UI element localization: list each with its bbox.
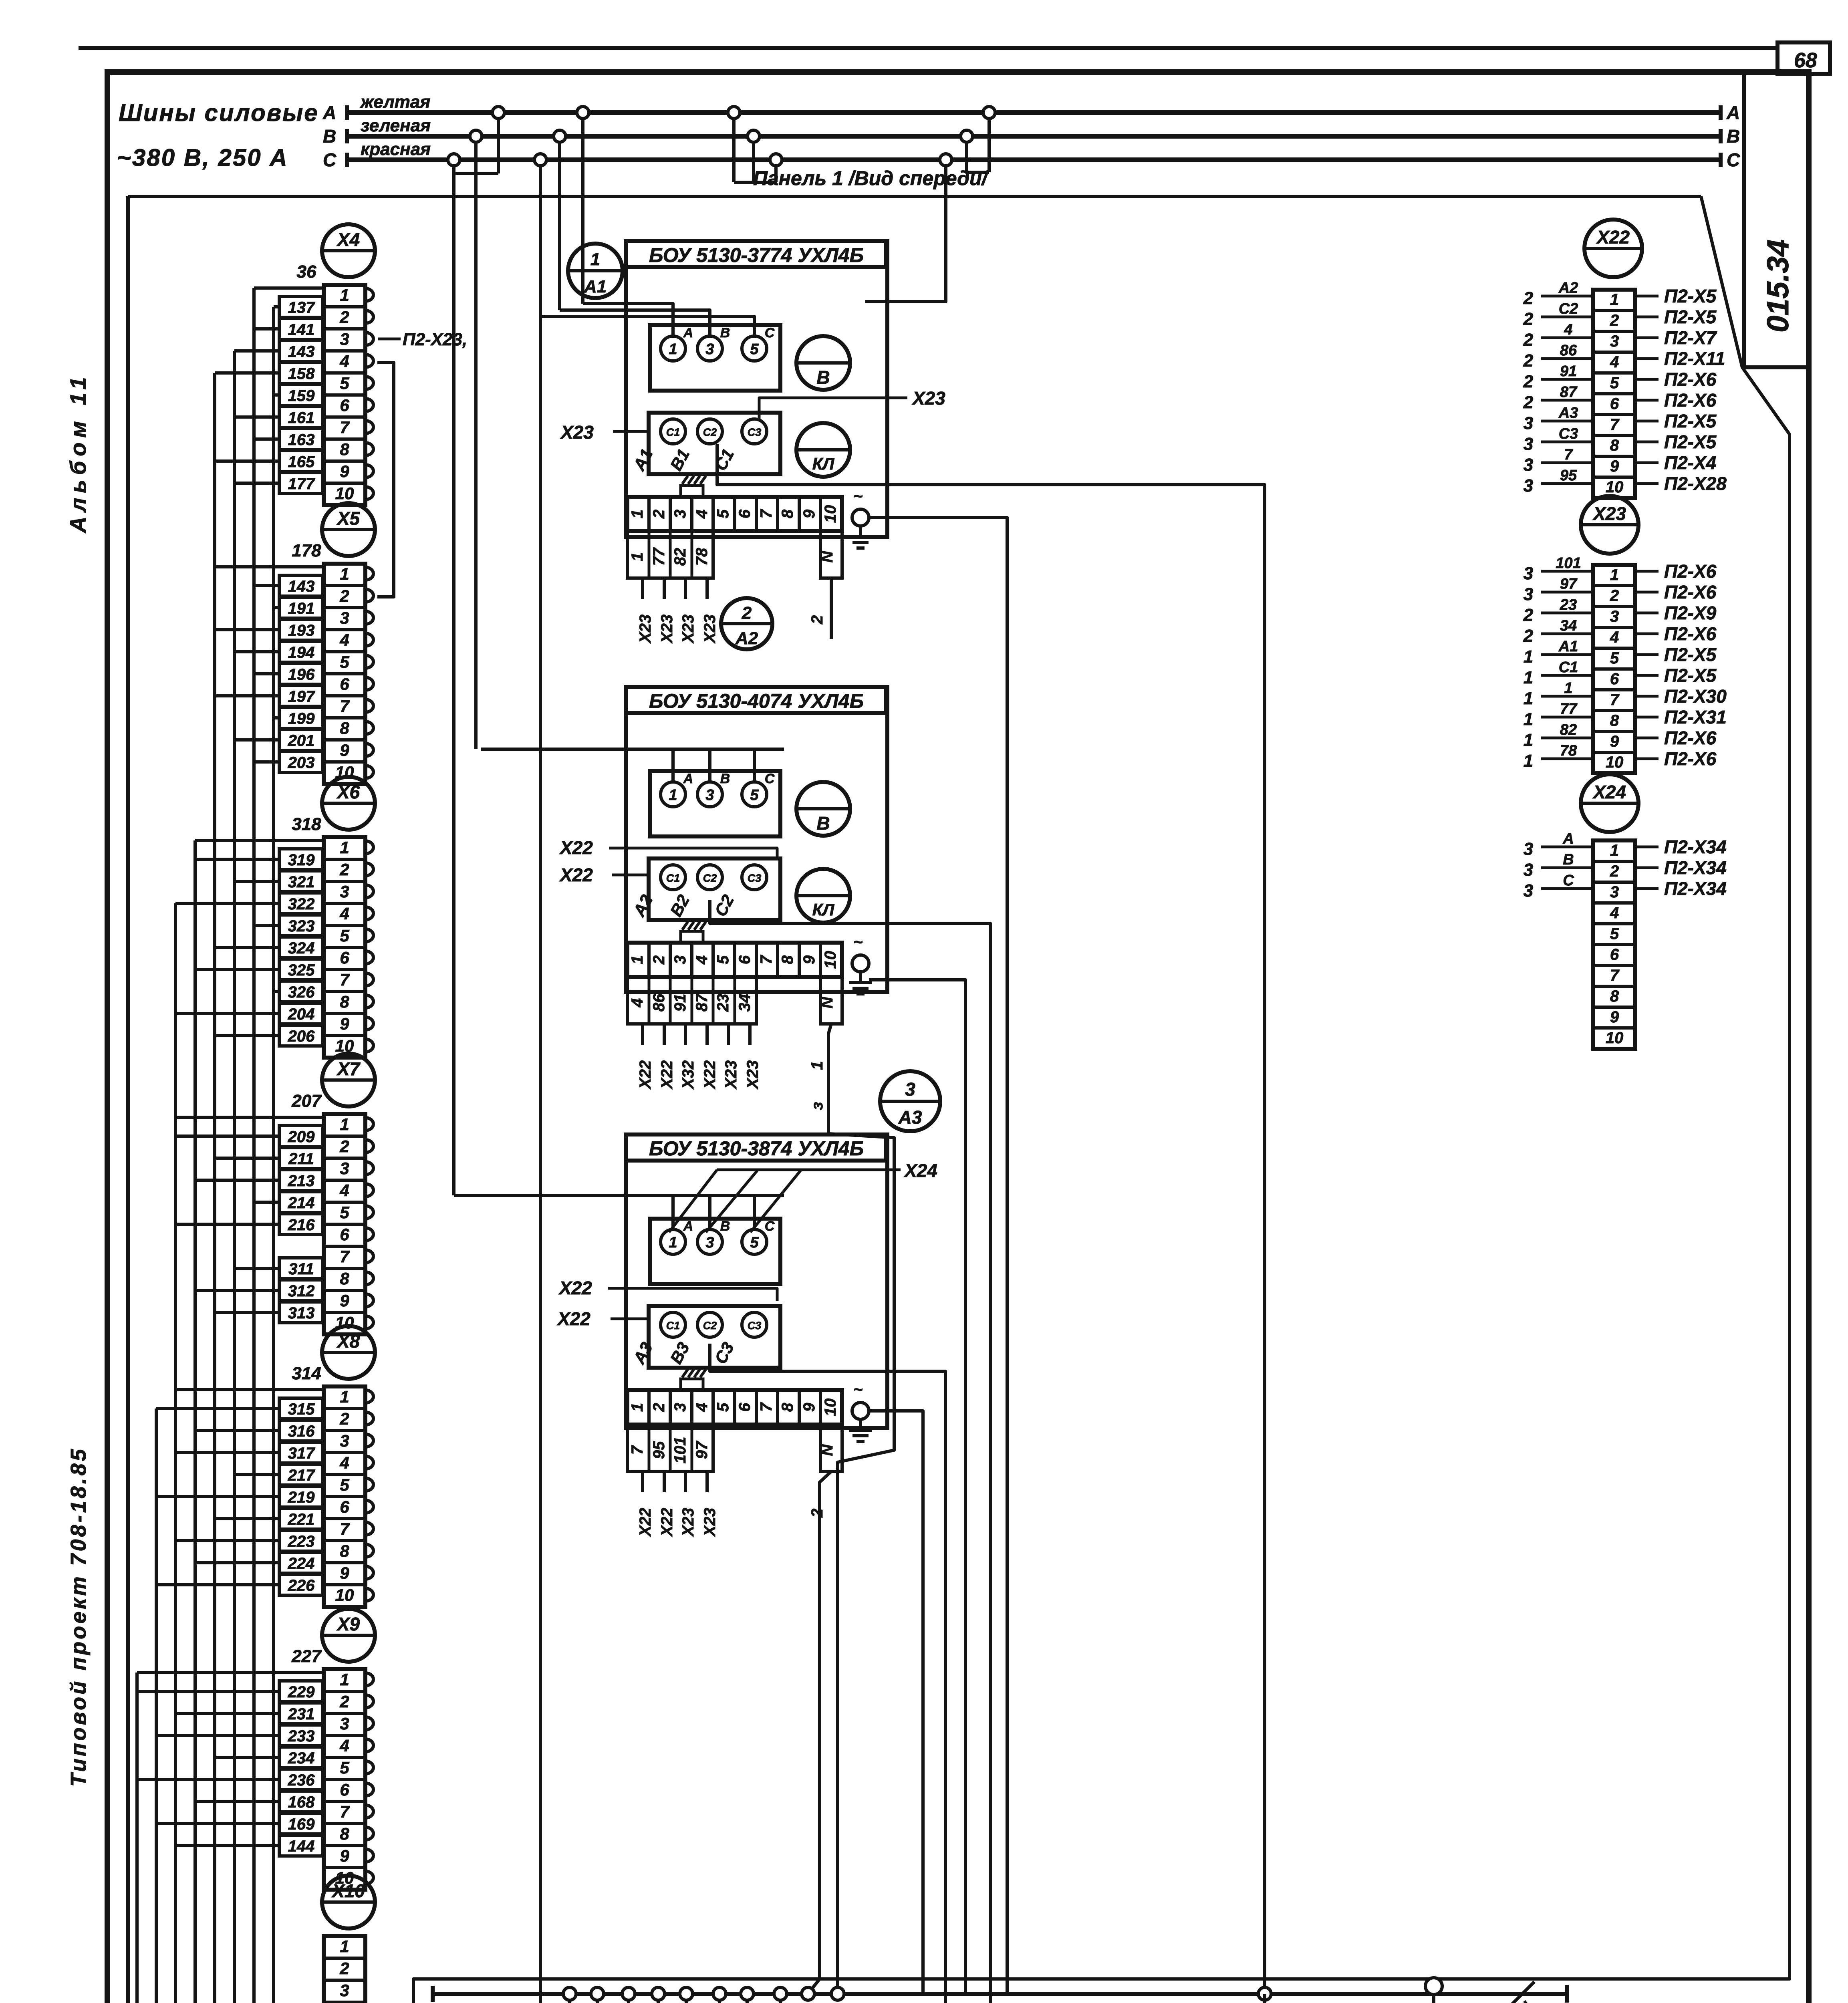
connector X23 xyxy=(1581,496,1638,554)
wire bundle vertical 8 xyxy=(274,307,485,2003)
svg-text:7: 7 xyxy=(758,509,775,518)
wire: null bus drop to cable circle at x=823 xyxy=(330,1994,686,2003)
svg-text:Шины силовые: Шины силовые xyxy=(119,99,319,126)
wire С3 at X22 pin 8 xyxy=(1541,441,1593,443)
svg-text:3: 3 xyxy=(1524,434,1533,454)
pin 3 phase В xyxy=(697,1229,722,1254)
svg-text:С2: С2 xyxy=(1559,300,1578,317)
svg-text:6: 6 xyxy=(340,396,349,415)
svg-text:3: 3 xyxy=(1524,839,1533,859)
wire 23 at X23 pin 3 xyxy=(1541,612,1593,615)
terminal strip of A2 xyxy=(627,943,842,977)
svg-text:3: 3 xyxy=(705,1234,714,1251)
connector X7 xyxy=(322,1054,375,1106)
wire 316 to X8 xyxy=(279,1420,323,1441)
wire 193 to X5 xyxy=(279,619,323,640)
svg-text:77: 77 xyxy=(650,547,668,566)
svg-text:5: 5 xyxy=(340,926,349,945)
wire to П2-Х6 xyxy=(1635,633,1659,635)
svg-text:10: 10 xyxy=(1606,754,1624,771)
pin С2 xyxy=(697,419,722,444)
wire tag boxes under strip of A2 xyxy=(627,977,756,1024)
svg-text:86: 86 xyxy=(650,993,668,1012)
svg-text:77: 77 xyxy=(1560,701,1578,717)
pin 3 phase В xyxy=(697,336,722,361)
callout: Шина нулевая черная xyxy=(1524,2001,1781,2003)
unit title box xyxy=(626,241,886,267)
svg-text:9: 9 xyxy=(340,741,349,760)
svg-text:217: 217 xyxy=(288,1467,315,1484)
svg-text:1: 1 xyxy=(590,250,600,269)
wire 191 to X5 xyxy=(279,597,323,618)
svg-text:В: В xyxy=(816,813,830,834)
svg-text:2: 2 xyxy=(808,1509,826,1518)
svg-text:5: 5 xyxy=(714,1403,732,1412)
svg-text:169: 169 xyxy=(288,1816,315,1833)
pin С3 xyxy=(742,865,767,890)
svg-text:Х6: Х6 xyxy=(336,782,360,802)
svg-text:Х24: Х24 xyxy=(1592,782,1626,802)
wire 137 to X4 xyxy=(279,296,323,317)
svg-text:1: 1 xyxy=(340,1115,349,1134)
svg-text:~: ~ xyxy=(853,488,863,505)
wire bundle vertical 1 xyxy=(135,1673,139,2003)
svg-text:5: 5 xyxy=(750,787,759,804)
wire bundle vertical 7 xyxy=(254,288,435,2003)
wire 144 to X9 xyxy=(279,1835,323,1856)
terminal box 1-3-5 of A2 xyxy=(650,771,780,836)
svg-text:7: 7 xyxy=(629,1445,646,1455)
svg-text:4: 4 xyxy=(1610,353,1619,371)
wire to П2-Х34 xyxy=(1635,866,1659,869)
svg-text:С: С xyxy=(1563,872,1574,889)
svg-text:6: 6 xyxy=(340,948,349,967)
svg-text:311: 311 xyxy=(288,1260,314,1278)
connector X8 xyxy=(322,1326,375,1379)
svg-text:234: 234 xyxy=(288,1749,315,1767)
pin С2 xyxy=(697,1312,722,1337)
svg-text:Х8: Х8 xyxy=(336,1331,360,1352)
wire: A3 terminal N drop xyxy=(808,1471,831,1994)
svg-text:Х23: Х23 xyxy=(722,1060,740,1090)
wire bundle vertical 2 xyxy=(156,1409,180,2003)
svg-text:А1: А1 xyxy=(1558,638,1578,655)
svg-text:2: 2 xyxy=(1523,288,1534,308)
svg-text:36: 36 xyxy=(297,262,316,282)
wire 101 at X23 pin 1 xyxy=(1541,570,1593,573)
svg-text:6: 6 xyxy=(340,1225,349,1244)
svg-text:223: 223 xyxy=(288,1533,315,1550)
svg-text:144: 144 xyxy=(288,1838,315,1855)
svg-text:С: С xyxy=(765,325,775,341)
svg-text:Х23: Х23 xyxy=(1592,503,1626,524)
wires: phase feed bracket into A2 xyxy=(481,748,784,751)
svg-text:С3: С3 xyxy=(748,1320,762,1332)
wire to П2-Х7 xyxy=(1635,337,1659,339)
svg-text:з: з xyxy=(808,1102,826,1110)
svg-text:А2: А2 xyxy=(735,629,758,648)
svg-text:312: 312 xyxy=(288,1282,315,1300)
wire 311 to X7 xyxy=(279,1258,323,1279)
pin С2 xyxy=(697,865,722,890)
svg-text:7: 7 xyxy=(340,697,350,715)
svg-text:199: 199 xyxy=(288,710,315,727)
svg-text:159: 159 xyxy=(288,387,315,405)
terminal box C1-C2-C3 of A1 xyxy=(649,413,780,474)
svg-text:197: 197 xyxy=(288,688,315,705)
contactor КЛ of A1 xyxy=(796,423,850,477)
wire to П2-Х6 xyxy=(1635,570,1659,573)
wire 231 to X9 xyxy=(279,1703,323,1724)
ground terminal of A1 xyxy=(852,509,869,526)
svg-text:2: 2 xyxy=(1610,587,1619,605)
ground terminal of A2 xyxy=(852,955,869,972)
svg-text:318: 318 xyxy=(292,814,321,834)
wire 163 to X4 xyxy=(279,429,323,449)
wire: null bus drop to cable circle at x=1210 xyxy=(485,1994,597,2003)
svg-text:2: 2 xyxy=(339,1137,349,1156)
wire 177 to X4 xyxy=(279,473,323,494)
svg-text:95: 95 xyxy=(650,1441,668,1459)
svg-text:красная: красная xyxy=(361,139,431,159)
svg-text:86: 86 xyxy=(1560,342,1577,359)
wire В at X24 pin 2 xyxy=(1541,866,1593,869)
svg-text:3: 3 xyxy=(340,882,349,901)
wire 234 to X9 xyxy=(279,1747,323,1768)
svg-text:8: 8 xyxy=(340,1542,349,1560)
designator circle 3/А3 xyxy=(880,1071,940,1131)
wire 216 to X7 xyxy=(279,1214,323,1235)
wire 199 to X5 xyxy=(279,707,323,728)
wire 224 to X8 xyxy=(279,1552,323,1573)
pin С3 xyxy=(742,419,767,444)
svg-text:А2: А2 xyxy=(1558,280,1578,296)
wire 223 to X8 xyxy=(279,1530,323,1551)
pin 1 phase А xyxy=(661,336,685,361)
wire tag boxes under strip of A1 xyxy=(627,531,713,578)
connector X4 xyxy=(322,224,375,277)
svg-text:1: 1 xyxy=(669,787,677,804)
wire 326 to X6 xyxy=(279,981,323,1002)
svg-text:2: 2 xyxy=(1523,372,1534,391)
wire 219 to X8 xyxy=(279,1486,323,1507)
svg-text:23: 23 xyxy=(1560,596,1577,613)
svg-text:4: 4 xyxy=(629,998,646,1008)
wire: null bus drop to cable circle at x=962 xyxy=(385,1994,658,2003)
svg-text:Х22: Х22 xyxy=(701,1060,719,1090)
pin 5 phase С xyxy=(742,782,767,807)
wire 206 to X6 xyxy=(279,1025,323,1046)
svg-text:П2-Х6: П2-Х6 xyxy=(1664,390,1717,411)
svg-text:3: 3 xyxy=(705,787,714,804)
svg-text:3: 3 xyxy=(1610,332,1619,350)
wire 319 to X6 xyxy=(279,849,323,870)
wire 229 to X9 xyxy=(279,1681,323,1702)
svg-text:5: 5 xyxy=(340,1475,349,1494)
svg-text:2: 2 xyxy=(1523,309,1534,329)
svg-text:7: 7 xyxy=(758,955,775,964)
svg-text:4: 4 xyxy=(693,510,711,519)
svg-text:229: 229 xyxy=(288,1683,315,1701)
svg-text:5: 5 xyxy=(340,653,349,671)
svg-text:3: 3 xyxy=(340,1159,349,1178)
wire: null bus to cable 1 xyxy=(542,1994,570,2003)
svg-text:5: 5 xyxy=(1610,649,1619,667)
wire 233 to X9 xyxy=(279,1725,323,1746)
svg-text:101: 101 xyxy=(671,1437,689,1464)
svg-text:34: 34 xyxy=(1560,617,1577,634)
wire X4 pins 4..5 to X5 pins 1..2 xyxy=(377,363,394,597)
svg-text:Х22: Х22 xyxy=(658,1508,676,1537)
wire А2 at X22 pin 1 xyxy=(1541,295,1593,298)
wire 324 to X6 xyxy=(279,937,323,958)
wire bundle vertical 3 xyxy=(175,903,230,2003)
wire 236 to X9 xyxy=(279,1769,323,1790)
svg-text:4: 4 xyxy=(1610,904,1619,922)
svg-text:П2-Х34: П2-Х34 xyxy=(1664,878,1727,899)
svg-text:78: 78 xyxy=(693,548,711,566)
svg-text:5: 5 xyxy=(1610,374,1619,392)
wire to П2-Х31 xyxy=(1635,716,1659,719)
svg-text:1: 1 xyxy=(340,838,349,857)
svg-text:78: 78 xyxy=(1560,742,1577,759)
svg-text:1: 1 xyxy=(1524,730,1533,750)
wire 317 to X8 xyxy=(279,1442,323,1463)
wire to П2-Х4 xyxy=(1635,461,1659,464)
wire to П2-Х6 xyxy=(1635,591,1659,594)
wire to П2-Х11 xyxy=(1635,357,1659,360)
svg-text:2: 2 xyxy=(650,1403,668,1412)
doc number margin box 015.34 xyxy=(1744,72,1809,367)
svg-text:С3: С3 xyxy=(748,872,762,884)
svg-text:1: 1 xyxy=(629,510,646,518)
terminal N of A2 xyxy=(820,977,842,1024)
svg-text:Х23: Х23 xyxy=(658,615,676,644)
svg-text:В: В xyxy=(720,325,730,341)
bus tap junction cluster 3 xyxy=(732,113,736,182)
svg-text:П2-Х7: П2-Х7 xyxy=(1664,327,1717,348)
wire: A3 ground to null bus xyxy=(869,1411,923,1994)
wire 86 at X22 pin 4 xyxy=(1541,357,1593,360)
svg-text:321: 321 xyxy=(288,873,315,891)
wire 217 to X8 xyxy=(279,1464,323,1485)
svg-text:3: 3 xyxy=(1524,564,1533,583)
svg-text:П2-Х6: П2-Х6 xyxy=(1664,582,1717,603)
terminal box C1-C2-C3 of A3 xyxy=(649,1306,780,1368)
wire: phase B drop to block A2 xyxy=(474,136,478,749)
svg-text:206: 206 xyxy=(288,1028,315,1045)
svg-text:П2-Х5: П2-Х5 xyxy=(1664,431,1717,452)
wire to П2-Х5 xyxy=(1635,441,1659,443)
svg-text:317: 317 xyxy=(288,1445,315,1462)
svg-text:4: 4 xyxy=(693,1403,711,1412)
svg-text:4: 4 xyxy=(339,352,349,371)
svg-text:194: 194 xyxy=(288,644,315,661)
wire 97 at X23 pin 2 xyxy=(1541,591,1593,594)
svg-text:9: 9 xyxy=(340,1846,349,1865)
wire: null bus drop to cable circle at x=697 xyxy=(279,1994,719,2003)
svg-text:Х23: Х23 xyxy=(679,615,697,644)
svg-text:3: 3 xyxy=(671,1403,689,1412)
svg-text:204: 204 xyxy=(288,1006,315,1023)
wire 314 to X8 pin 1 xyxy=(175,1388,324,1391)
svg-text:С1: С1 xyxy=(1559,659,1578,676)
wire А3 at X22 pin 7 xyxy=(1541,420,1593,423)
svg-text:3: 3 xyxy=(340,1981,349,2000)
wire to П2-Х5 xyxy=(1635,420,1659,423)
svg-text:326: 326 xyxy=(288,983,315,1001)
svg-text:Х22: Х22 xyxy=(559,864,593,885)
svg-text:6: 6 xyxy=(736,955,754,964)
bus B (green) xyxy=(349,134,1721,139)
svg-text:97: 97 xyxy=(1560,576,1578,592)
svg-text:Х23: Х23 xyxy=(701,615,719,644)
svg-text:3: 3 xyxy=(1524,413,1533,433)
svg-text:3: 3 xyxy=(1524,860,1533,880)
meter B of A1 xyxy=(796,336,850,390)
svg-text:БОУ 5130-4074 УХЛ4Б: БОУ 5130-4074 УХЛ4Б xyxy=(649,690,864,712)
connector X24 xyxy=(1581,774,1638,832)
svg-text:3: 3 xyxy=(905,1079,915,1100)
svg-text:3: 3 xyxy=(1524,455,1533,475)
svg-text:С: С xyxy=(323,149,337,170)
svg-text:Х22: Х22 xyxy=(637,1060,654,1090)
svg-text:9: 9 xyxy=(340,462,349,481)
pin С1 xyxy=(661,419,685,444)
svg-text:1: 1 xyxy=(1564,680,1572,697)
svg-text:10: 10 xyxy=(335,484,354,503)
inner left border line xyxy=(126,196,130,2003)
svg-text:10: 10 xyxy=(335,1586,354,1604)
svg-text:95: 95 xyxy=(1560,467,1577,484)
svg-text:8: 8 xyxy=(340,1269,349,1288)
svg-text:6: 6 xyxy=(340,1780,349,1799)
svg-text:8: 8 xyxy=(1610,437,1619,454)
wire 315 to X8 xyxy=(279,1398,323,1419)
wire 178 to X5 pin 1 xyxy=(215,565,324,568)
connector X22 xyxy=(1584,220,1642,277)
wire 34 at X23 pin 4 xyxy=(1541,633,1593,635)
svg-text:Х23: Х23 xyxy=(701,1508,719,1537)
wire bundle vertical 4 xyxy=(195,840,279,2003)
svg-text:7: 7 xyxy=(1610,967,1620,984)
svg-text:101: 101 xyxy=(1556,555,1581,572)
wire: A3 C2 to cable 25 xyxy=(703,1344,945,2003)
wire 207 to X7 pin 1 xyxy=(175,1116,324,1119)
svg-text:7: 7 xyxy=(340,1247,350,1266)
terminal N of A1 xyxy=(820,531,842,578)
svg-text:2: 2 xyxy=(1610,312,1619,329)
svg-text:Х22: Х22 xyxy=(1596,227,1630,248)
svg-text:6: 6 xyxy=(340,675,349,693)
svg-text:97: 97 xyxy=(693,1441,711,1459)
svg-text:Х7: Х7 xyxy=(336,1058,361,1079)
svg-text:БОУ 5130-3774 УХЛ4Б: БОУ 5130-3774 УХЛ4Б xyxy=(649,244,864,266)
wire А1 at X23 pin 5 xyxy=(1541,653,1593,656)
svg-text:9: 9 xyxy=(800,1403,818,1412)
wire А at X24 pin 1 xyxy=(1541,846,1593,848)
svg-text:2: 2 xyxy=(339,586,349,605)
wire 161 to X4 xyxy=(279,407,323,427)
svg-text:158: 158 xyxy=(288,365,315,383)
pin 1 phase А xyxy=(661,782,685,807)
wire to П2-Х6 xyxy=(1635,758,1659,760)
svg-text:1: 1 xyxy=(1610,842,1619,859)
svg-text:1: 1 xyxy=(1610,566,1619,584)
svg-text:213: 213 xyxy=(288,1172,315,1190)
label П2-Х23 at X4 pin 3 xyxy=(378,338,401,341)
wire 95 at X22 pin 10 xyxy=(1541,482,1593,485)
svg-text:226: 226 xyxy=(288,1577,315,1594)
wire 194 to X5 xyxy=(279,641,323,662)
svg-text:4: 4 xyxy=(339,631,349,649)
svg-text:82: 82 xyxy=(1560,721,1577,738)
svg-text:68: 68 xyxy=(1794,49,1817,72)
wires: phase feed bracket into A3 xyxy=(454,1194,784,1197)
svg-text:П2-Х34: П2-Х34 xyxy=(1664,857,1727,878)
svg-text:191: 191 xyxy=(288,600,315,617)
svg-text:П2-Х6: П2-Х6 xyxy=(1664,727,1717,748)
svg-text:1: 1 xyxy=(669,341,677,358)
svg-text:П2-Х34: П2-Х34 xyxy=(1664,836,1727,857)
designator circle 2/А2 xyxy=(721,598,772,649)
svg-text:177: 177 xyxy=(288,475,315,493)
svg-text:216: 216 xyxy=(288,1216,315,1234)
svg-text:314: 314 xyxy=(292,1364,321,1383)
svg-text:1: 1 xyxy=(629,1403,646,1412)
svg-text:3: 3 xyxy=(340,1431,349,1450)
svg-text:В: В xyxy=(720,771,730,786)
ground symbol on strip xyxy=(681,931,703,943)
wire 313 to X7 xyxy=(279,1302,323,1323)
wire 203 to X5 xyxy=(279,752,323,772)
svg-text:5: 5 xyxy=(750,1234,759,1251)
svg-text:П2-Х4: П2-Х4 xyxy=(1664,452,1716,473)
wire: phase C drop to block A3 xyxy=(452,173,455,1195)
svg-text:209: 209 xyxy=(288,1128,315,1146)
svg-text:6: 6 xyxy=(1610,395,1619,413)
unit title box xyxy=(626,687,886,713)
svg-text:7: 7 xyxy=(340,1802,350,1821)
svg-text:Х23: Х23 xyxy=(911,388,945,409)
ground symbol on strip xyxy=(681,1379,703,1390)
svg-text:КЛ: КЛ xyxy=(812,900,835,919)
svg-text:П2-Х30: П2-Х30 xyxy=(1664,686,1727,707)
svg-text:2: 2 xyxy=(650,955,668,965)
connector X10 xyxy=(322,1876,375,1928)
svg-text:10: 10 xyxy=(822,1398,839,1417)
wire 1 at X23 pin 7 xyxy=(1541,695,1593,698)
wire 322 to X6 xyxy=(279,893,323,914)
svg-text:1: 1 xyxy=(669,1234,677,1251)
svg-text:~: ~ xyxy=(853,933,863,951)
svg-text:2: 2 xyxy=(1610,862,1619,880)
wire 143 to X5 xyxy=(279,575,323,596)
svg-text:П2-Х5: П2-Х5 xyxy=(1664,665,1717,686)
panel 1 outline xyxy=(128,195,1701,198)
wire 143 to X4 xyxy=(279,341,323,361)
svg-text:N: N xyxy=(818,550,836,562)
svg-text:2: 2 xyxy=(1523,605,1534,625)
wire 204 to X6 xyxy=(279,1003,323,1024)
wire 78 at X23 pin 10 xyxy=(1541,758,1593,760)
svg-text:221: 221 xyxy=(288,1511,315,1528)
svg-text:С2: С2 xyxy=(703,1320,717,1332)
svg-text:8: 8 xyxy=(340,440,349,459)
wire: null bus drop to cable circle at x=573 xyxy=(230,1994,747,2003)
wire С1 at X23 pin 6 xyxy=(1541,674,1593,677)
svg-text:3: 3 xyxy=(340,609,349,627)
